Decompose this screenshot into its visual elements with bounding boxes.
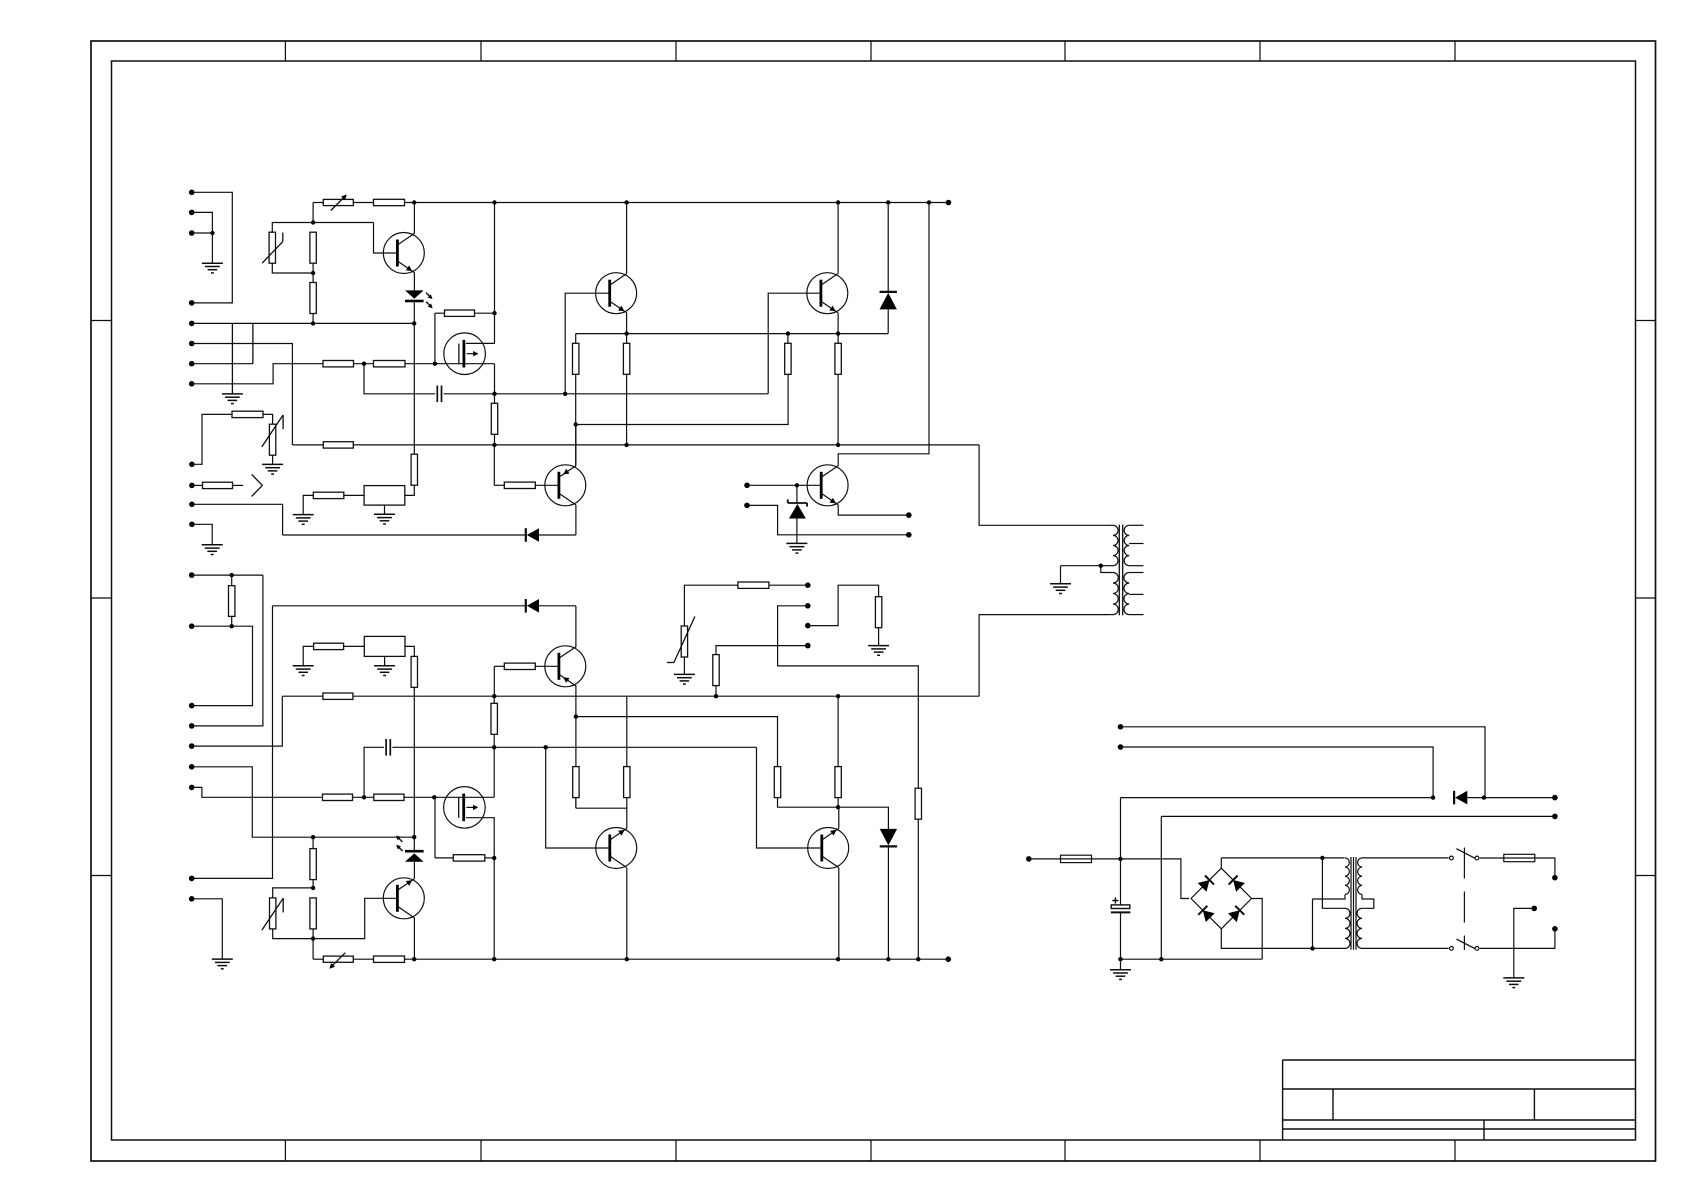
resistor R26 <box>229 575 235 626</box>
chevron input mark <box>252 474 263 496</box>
wire varistor top <box>684 585 738 626</box>
node B3 <box>311 936 315 940</box>
wire pin1-pin4 bracket <box>192 192 233 303</box>
resistor R4 <box>323 361 354 367</box>
wire emitter link h808 <box>576 807 627 809</box>
ground G12 <box>868 646 889 656</box>
wire D2 line <box>283 534 576 536</box>
node rail3-R23 <box>916 957 920 961</box>
connector pin5b <box>189 743 195 749</box>
resistor R9 <box>573 334 579 375</box>
wire dc2 leg <box>1160 816 1162 959</box>
node rail-D1 <box>886 200 890 204</box>
ground G15 <box>1503 978 1524 988</box>
resistor R27 <box>310 837 316 888</box>
wire Q2 base riser <box>565 293 610 394</box>
wire Q4 emitter <box>837 313 839 334</box>
diode D3 <box>526 599 539 613</box>
wire LED2-Q9 <box>413 862 415 879</box>
wire pin7b <box>192 787 323 797</box>
wire th1 bottom <box>272 263 313 273</box>
ground G9 <box>293 666 314 676</box>
wire pin7 tie <box>252 323 254 363</box>
resistor R17 <box>411 454 417 485</box>
wire fb line y393 <box>495 393 769 395</box>
wire LED2 top <box>413 837 415 850</box>
wire C3 top leg <box>1120 798 1122 859</box>
node B1 <box>311 835 315 839</box>
node C3 minus <box>1118 957 1122 961</box>
wire R9 to Q3 <box>575 374 577 465</box>
wire pin5b to rail <box>192 696 283 746</box>
resistor R16 <box>313 492 344 498</box>
wire pin6b <box>192 767 415 837</box>
wire Q2 emitter <box>626 313 628 334</box>
wire box gnd <box>384 505 386 514</box>
transistor Q5 <box>807 465 848 506</box>
wire pin9b <box>192 899 223 959</box>
node T1 center tap <box>1099 564 1103 568</box>
ground G3 <box>262 464 283 474</box>
resistor R12 <box>835 334 841 445</box>
connector pin8b <box>189 876 195 882</box>
node mid-Q8col <box>836 694 840 698</box>
wire th3 bottom <box>273 929 313 939</box>
ground G14 <box>1110 959 1131 979</box>
wire Q5 base <box>747 484 821 486</box>
resistor R30 <box>323 794 353 800</box>
wire R6 left leg <box>434 313 436 364</box>
diode D2 <box>526 528 539 542</box>
terminal t4 <box>906 512 912 518</box>
terminal rail end <box>946 200 952 206</box>
box U2 <box>364 636 405 656</box>
resistor R7 <box>491 394 497 445</box>
wire mid rail to T1 <box>979 615 1109 697</box>
wire T2 pri top <box>1362 857 1449 859</box>
resistor R34 <box>573 767 579 809</box>
wire bridge bottom <box>1221 929 1312 949</box>
wire box2 right <box>405 646 414 656</box>
resistor R6 above mosfet <box>435 310 495 316</box>
node R6-M1 <box>492 311 496 315</box>
connector pin6b <box>189 764 195 770</box>
node Q6-e <box>574 714 578 718</box>
wire base feed y222 <box>313 222 373 224</box>
capacitor C3 <box>1111 859 1130 959</box>
wire ground stem G2 <box>231 323 233 394</box>
node e-Q2 <box>624 331 628 335</box>
terminal t1 <box>744 483 750 489</box>
node fb-Q7 <box>544 745 548 749</box>
wire pin7 stub <box>192 363 253 365</box>
LED D7 <box>396 836 424 862</box>
wire T2 sec top <box>1221 857 1344 859</box>
wire p1b <box>192 574 263 576</box>
switch SW1a <box>1450 849 1479 860</box>
resistor R22 <box>738 582 808 588</box>
node LED2-line <box>412 835 416 839</box>
wire Q2 collector <box>626 203 628 274</box>
wire Q7 emitter <box>626 798 628 829</box>
node Q8-e <box>836 805 840 809</box>
wire varistor gnd <box>683 657 685 674</box>
wire R36 bottom <box>778 798 839 808</box>
node e-Q4 <box>836 331 840 335</box>
connector pin arrow <box>189 483 195 489</box>
ground G8 <box>1050 584 1071 594</box>
wire top rail <box>405 202 949 204</box>
wire box2 gnd <box>384 656 386 665</box>
node rail-Q4 <box>836 200 840 204</box>
wire LED1 cathode <box>413 302 415 323</box>
terminal u1 <box>805 582 811 588</box>
zener ZD1 <box>788 499 807 518</box>
connector pin gnd4 <box>189 522 195 528</box>
wire u2 long <box>778 606 919 788</box>
wire mains neutral <box>1480 929 1555 949</box>
wire gnd4 <box>192 524 212 545</box>
resistor R24 <box>875 597 881 646</box>
wire R16 gnd leg <box>303 495 313 514</box>
node rail-Q1 <box>412 200 416 204</box>
resistor R29 <box>353 956 404 962</box>
wire R36 top <box>576 717 778 767</box>
resistor R8 in rail2 <box>323 442 353 448</box>
terminal t3 <box>906 532 912 538</box>
wire u3 path <box>808 585 879 625</box>
wire pin5 ground line y323 <box>192 322 415 324</box>
capacitor C2 <box>386 739 390 756</box>
wire D2 from pin <box>192 504 283 535</box>
node fb-Q2 <box>563 392 567 396</box>
resistor R21 <box>411 656 417 687</box>
node gate2 <box>433 362 437 366</box>
resistor R28 <box>310 898 316 939</box>
connector pin9b <box>189 896 195 902</box>
wire R19 leg <box>493 666 495 696</box>
fuse F1 <box>1061 855 1092 862</box>
wire D4 link <box>838 807 888 837</box>
diode D1 <box>880 292 897 310</box>
wire D5 right <box>1467 797 1555 799</box>
node e-Rc <box>786 331 790 335</box>
wire fuse line <box>1029 858 1121 860</box>
wire D4 bottom <box>887 846 889 959</box>
capacitor C1 <box>437 386 441 403</box>
wire R32 left leg <box>434 797 436 858</box>
wire gate chain <box>323 363 495 365</box>
node rail-Q5 <box>927 200 931 204</box>
fuse F2 <box>1480 854 1535 861</box>
wire zener gnd <box>796 519 798 544</box>
wire psu minus <box>1121 958 1263 960</box>
node fuse-C3 <box>1118 857 1122 861</box>
ground G4 <box>202 545 223 555</box>
resistor R2 <box>310 263 316 323</box>
wire D3 to Q6 <box>575 606 577 648</box>
wire M2 top leg <box>493 747 495 797</box>
ground G5 <box>293 515 314 525</box>
wire Q1 base <box>374 223 398 254</box>
node dc-a-j <box>1482 795 1486 799</box>
transistor Q6 <box>545 646 586 687</box>
thermistor TH3 <box>262 898 283 930</box>
wire D3 line <box>273 605 576 607</box>
node p1b <box>230 573 234 577</box>
wire dc-a <box>1121 727 1486 798</box>
wire D1 bottom <box>887 309 889 333</box>
wire Q9 collector <box>413 918 415 959</box>
connector pin sig1 <box>189 502 195 508</box>
node zener <box>795 483 799 487</box>
node rail3-Q9 <box>412 957 416 961</box>
node M2-top <box>492 745 496 749</box>
wire dc line1 <box>1121 797 1434 799</box>
terminal t2 <box>744 503 750 509</box>
wire Q7 collector <box>626 868 628 959</box>
wire cap C1 branch <box>364 364 435 394</box>
wire rail2 to T1 <box>979 445 1109 525</box>
wire D1 top <box>887 203 889 292</box>
terminal mains2 <box>1552 926 1558 932</box>
node rail2-Q4 <box>836 443 840 447</box>
wire gate chain2 <box>323 796 495 798</box>
wire fb line y747 <box>494 746 756 748</box>
wire Q4 base riser <box>768 293 821 394</box>
wire Q1 emitter <box>413 273 415 291</box>
wire Q8 collector <box>838 868 840 959</box>
wire Q6e chain <box>575 717 577 809</box>
diode D5 <box>1454 791 1467 805</box>
terminal u4 <box>805 643 811 649</box>
node pin3 junction <box>210 231 214 235</box>
ground G13 <box>212 959 233 969</box>
node rail3-M2 <box>492 957 496 961</box>
resistor R31 <box>374 794 404 800</box>
terminal rail3 end <box>946 956 952 962</box>
node p2b <box>230 624 234 628</box>
transistor Q7 <box>596 828 637 869</box>
wire M2 drain <box>466 818 494 960</box>
wire R21 down <box>413 687 415 837</box>
diode D4 <box>880 829 897 847</box>
node rail-Q2 <box>624 200 628 204</box>
wire box right <box>405 485 415 495</box>
resistor R20 <box>314 643 344 649</box>
wire C2 to node <box>392 746 494 748</box>
transistor Q1 <box>383 233 424 274</box>
wire M1 rail drop <box>494 203 496 314</box>
node mid-R <box>714 694 718 698</box>
resistor R13 <box>494 482 535 488</box>
wire mid rail <box>282 695 979 697</box>
node gate1 <box>362 362 366 366</box>
wire th2 feed <box>192 414 232 464</box>
node dc2-bridge <box>1159 957 1163 961</box>
wire cap C2 branch <box>364 747 384 797</box>
wire M1 drain <box>466 313 495 343</box>
transistor Q4 <box>807 273 848 314</box>
terminal u3 <box>805 623 811 629</box>
resistor R15 <box>192 482 233 488</box>
terminal dc-out2 <box>1552 814 1558 820</box>
node rail3-D4 <box>886 957 890 961</box>
wire Q7 base riser <box>546 747 610 848</box>
thermistor TH2 <box>262 415 283 455</box>
wire M1 source <box>494 364 496 394</box>
wire zener leg <box>796 485 798 503</box>
wire pin6 to rail2 <box>192 344 293 445</box>
node dc-b-j <box>1431 795 1435 799</box>
node A3 <box>311 321 315 325</box>
resistor R14 <box>232 411 263 417</box>
ground G10 <box>374 666 395 676</box>
wire R20 gnd leg <box>303 646 313 665</box>
terminal ac1 <box>1026 856 1032 862</box>
wire R17 top <box>413 323 415 454</box>
wire pin8 to gate chain <box>192 364 323 384</box>
switch SW1b <box>1450 939 1479 950</box>
node deg <box>574 422 578 426</box>
resistor R3 <box>353 199 404 205</box>
wire to bridge <box>1121 859 1190 899</box>
terminal mains1 <box>1552 875 1558 881</box>
node B2 <box>311 886 315 890</box>
resistor R1 <box>310 232 316 263</box>
trimmer RV2 <box>313 953 353 969</box>
node rail-M1 <box>492 200 496 204</box>
node mid-Q6 <box>492 694 496 698</box>
transistor Q9 <box>383 878 424 919</box>
wire rail2 <box>292 444 979 446</box>
node T2 tap2 <box>1310 946 1314 950</box>
transistor Q3 <box>545 465 586 506</box>
wire Q5 collector <box>838 203 929 466</box>
wire p2b <box>192 625 232 627</box>
wire Q3 emitter <box>575 425 577 466</box>
wire mains live <box>1535 858 1555 878</box>
terminal dc-b <box>1118 744 1124 750</box>
resistor R18 in rail <box>323 693 353 699</box>
ground G7 <box>786 543 807 553</box>
node gate4 <box>432 795 436 799</box>
resistor R10 <box>623 334 629 445</box>
connector J1 pins 5-8 <box>189 321 195 387</box>
wire pot1 left leg <box>312 203 314 223</box>
ground G2 <box>222 394 243 404</box>
wire R13 leg <box>493 445 495 485</box>
terminal u2 <box>805 603 811 609</box>
wire p2-p3 link <box>192 626 253 705</box>
transformer T1 windings <box>1061 525 1144 616</box>
wire dc line2 <box>1161 815 1555 817</box>
terminal mains gnd <box>1531 906 1537 912</box>
resistor R35 <box>624 696 630 797</box>
resistor R25 <box>713 655 719 697</box>
resistor R11 <box>785 334 791 375</box>
wire R16-box <box>344 494 364 496</box>
wire Q1 collector <box>413 203 415 234</box>
wire arrow stub <box>233 484 244 486</box>
terminal dc-out1 <box>1552 795 1558 801</box>
wire bridge right <box>1252 899 1263 960</box>
wire Q8 emitter <box>838 807 840 828</box>
resistor R5 <box>374 361 406 367</box>
wire th2 top <box>263 414 273 424</box>
wire bridge top <box>1220 858 1222 868</box>
node rail3-Q7 <box>625 957 629 961</box>
LED D6 <box>405 290 433 308</box>
wire Q6 base <box>535 665 559 667</box>
wire Q4 collector <box>837 203 839 274</box>
wire t2 path <box>747 505 909 534</box>
switch gang dashes <box>1463 848 1465 951</box>
ground G11 <box>674 674 695 684</box>
wire th3 top <box>273 888 313 898</box>
resistor R37 <box>835 696 841 807</box>
wire pin2-pin3 to ground <box>192 212 213 263</box>
wire C1 to node <box>444 393 495 395</box>
ground G1 <box>202 263 223 273</box>
wire bottom rail <box>405 958 949 960</box>
node gate3 <box>362 795 366 799</box>
box U1 <box>364 486 405 506</box>
wire Q3 base <box>535 484 559 486</box>
resistor R33 <box>491 696 497 747</box>
resistor R23 <box>915 788 921 959</box>
wire emitter rail y333 <box>576 333 889 335</box>
node A2 <box>311 271 315 275</box>
node T2 tap1 <box>1320 856 1324 860</box>
bridge rectifier BR1 <box>1191 868 1252 929</box>
wire T2 pri bottom <box>1362 947 1449 949</box>
wire dc-b <box>1121 747 1434 798</box>
node LED1-gnd <box>412 321 416 325</box>
wire trimmer2 leg <box>312 939 314 960</box>
title block <box>1283 1060 1636 1140</box>
node A1 <box>311 220 315 224</box>
resistor R32 under mosfet <box>435 855 494 861</box>
resistor R19 <box>494 663 535 669</box>
connector J2 pins <box>189 572 195 728</box>
terminal dc-a <box>1118 724 1124 730</box>
wire Q3 collector <box>575 505 577 535</box>
connector pin th2 <box>189 462 195 468</box>
node R32-M2 <box>492 856 496 860</box>
wire Q9 base feed <box>313 898 397 938</box>
node rail2-M1 <box>492 443 496 447</box>
transistor Q2 <box>596 273 637 314</box>
mosfet M1 <box>444 333 486 375</box>
wire p1-p4 link <box>192 575 263 726</box>
wire R20-box <box>344 645 365 647</box>
wire Q8 base riser <box>757 747 822 848</box>
wire pin8b riser <box>192 606 273 879</box>
mosfet M2 <box>444 787 486 829</box>
wire th2 gnd <box>272 455 274 464</box>
wire th1 top <box>272 223 313 233</box>
resistor R36 <box>774 767 780 798</box>
wire Q5 emitter <box>838 505 909 515</box>
connector J1 pins 1-4 <box>189 190 195 306</box>
wire Q6 emitter <box>575 685 577 716</box>
wire mains gnd <box>1514 908 1534 978</box>
node rail2-Q2 <box>624 443 628 447</box>
node M1-source <box>492 392 496 396</box>
varistor VR1 <box>667 617 695 663</box>
connector pin7b <box>189 785 195 791</box>
